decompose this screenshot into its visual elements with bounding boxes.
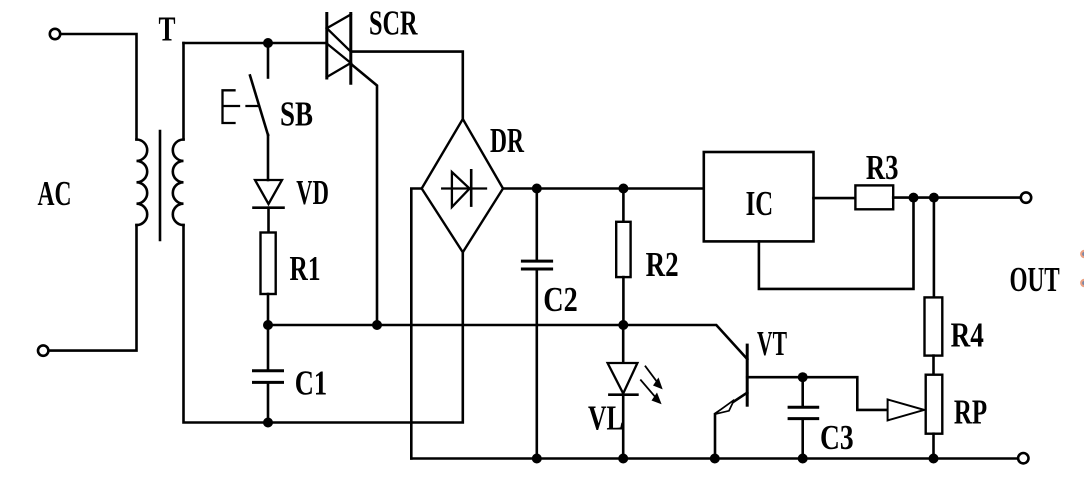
svg-text:R1: R1: [290, 249, 321, 288]
svg-text:R4: R4: [951, 315, 984, 354]
svg-text:C1: C1: [295, 363, 327, 402]
svg-text:SB: SB: [280, 94, 313, 133]
svg-text:R3: R3: [866, 148, 899, 187]
svg-text:RP: RP: [954, 392, 987, 431]
svg-text:C3: C3: [820, 418, 854, 457]
svg-text:VL: VL: [588, 398, 624, 437]
svg-text:VD: VD: [296, 173, 329, 212]
svg-text:R2: R2: [646, 245, 679, 284]
svg-text:T: T: [159, 10, 176, 49]
svg-text:VT: VT: [757, 324, 787, 363]
svg-text:C2: C2: [543, 280, 578, 319]
svg-text:IC: IC: [746, 184, 774, 223]
svg-text:AC: AC: [38, 174, 72, 213]
svg-text:DR: DR: [490, 121, 524, 160]
svg-text:SCR: SCR: [369, 3, 418, 42]
svg-text:OUT: OUT: [1010, 260, 1060, 299]
